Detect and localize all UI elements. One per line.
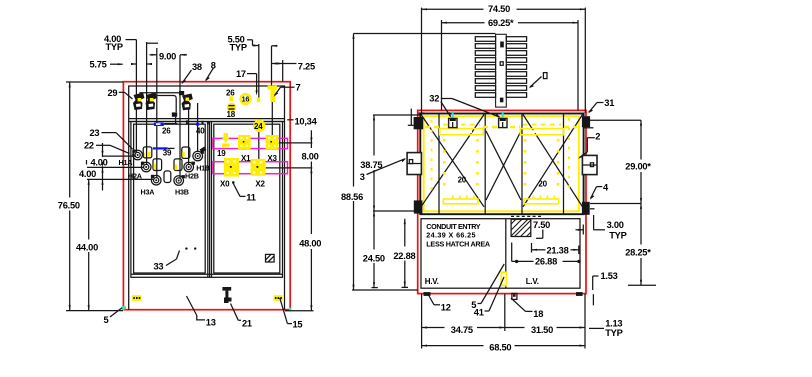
svg-text:7.50: 7.50 [533, 220, 550, 230]
svg-text:4.00: 4.00 [79, 169, 96, 179]
dim 5.75 [90, 60, 124, 70]
insulator C5 [182, 147, 190, 158]
svg-text:18: 18 [227, 110, 236, 119]
svg-text:TYP: TYP [230, 43, 247, 53]
foot pad left [424, 292, 431, 296]
ext line H3 [87, 178, 154, 180]
arrow 19 yellow [222, 133, 231, 147]
partition 1 [438, 114, 440, 215]
svg-text:16: 16 [242, 95, 250, 104]
dim 76.50 [58, 82, 123, 311]
radiator center column [496, 34, 507, 107]
vent 17 yellow tick [257, 97, 260, 102]
H3A bushing [151, 175, 161, 185]
label HV [425, 277, 439, 286]
svg-text:39: 39 [163, 149, 172, 158]
svg-text:48.00: 48.00 [299, 239, 321, 249]
text conduit entry [426, 222, 490, 249]
insulator C2 [153, 159, 162, 171]
svg-text:9.00: 9.00 [159, 52, 176, 62]
svg-text:24.50: 24.50 [363, 253, 385, 263]
tank plan outline [420, 114, 583, 215]
svg-text:12: 12 [441, 302, 451, 312]
bushing B1 [133, 93, 145, 111]
svg-text:24: 24 [254, 122, 263, 131]
cabinet front outline [129, 86, 285, 310]
H1B bushing [193, 147, 207, 161]
callout 12 [429, 295, 451, 312]
grounding nut 18 [227, 103, 236, 112]
callout 21 [231, 304, 252, 329]
svg-text:21.38: 21.38 [547, 245, 569, 255]
svg-text:33: 33 [154, 261, 164, 271]
dim 26.88 [512, 243, 581, 267]
svg-text:H1A: H1A [119, 158, 133, 167]
svg-text:CONDUIT ENTRY: CONDUIT ENTRY [426, 222, 480, 231]
dim 9.00 [150, 52, 188, 62]
base pad left yellow [132, 295, 141, 301]
callout 8 [205, 60, 216, 81]
H2A bushing [141, 162, 151, 172]
dim 31.50 [505, 294, 585, 349]
X brace left bay [421, 115, 484, 207]
dim 5.50 TYP [228, 35, 278, 53]
callout 38 [181, 62, 202, 84]
H1A bushing [132, 150, 145, 160]
svg-text:4.00: 4.00 [91, 157, 108, 167]
corner tick left cyan [122, 306, 126, 310]
label 39 [163, 149, 172, 158]
partition 2 [484, 114, 486, 215]
svg-text:44.00: 44.00 [76, 242, 98, 252]
callout 31 [588, 98, 614, 114]
svg-text:H1B: H1B [196, 164, 210, 173]
bushing H3 drop wire [156, 48, 158, 178]
callout 5 left [104, 308, 123, 325]
svg-text:38.75: 38.75 [360, 160, 382, 170]
ext line H1 [102, 155, 136, 157]
label LV [526, 277, 539, 286]
svg-text:69.25*: 69.25* [488, 18, 514, 28]
label 40 blue [186, 123, 199, 126]
dim 22.88 [393, 219, 415, 288]
dim 8.00 [302, 151, 319, 161]
callout 15 [280, 298, 303, 329]
svg-text:26: 26 [226, 88, 235, 97]
dim 29.00 [590, 120, 651, 285]
core 1 [440, 129, 483, 204]
dim 4.00 TYP top [104, 34, 158, 65]
dim 28.25 [625, 204, 656, 286]
lead line X3 row [279, 142, 313, 144]
terminal 26 yellow square [229, 96, 233, 101]
svg-text:20: 20 [458, 176, 467, 185]
callout 13 [187, 296, 216, 327]
hatch box 25 [266, 254, 275, 262]
dim 34.75 [422, 294, 505, 349]
svg-text:H.V.: H.V. [425, 277, 439, 286]
callout 29 [108, 88, 133, 99]
label 26 shelf [162, 126, 171, 135]
callout 0 radiator [529, 73, 548, 89]
dim 1.13 TYP [589, 294, 623, 338]
svg-text:68.50: 68.50 [489, 342, 511, 352]
callout 22 [84, 140, 130, 153]
corner pad BR [582, 202, 595, 215]
svg-text:13: 13 [206, 317, 216, 327]
label 19 [217, 149, 226, 158]
callout 5 [471, 264, 504, 310]
magenta row 1 [213, 138, 288, 148]
label X1 [241, 154, 251, 163]
holddown bolt B [499, 111, 507, 128]
svg-text:31: 31 [604, 98, 614, 108]
dim 10,34 [287, 116, 317, 126]
wire 39 blue [153, 147, 175, 149]
dim 38.75 [360, 115, 420, 288]
svg-text:TYP: TYP [106, 42, 123, 52]
cabinet divider [505, 219, 507, 289]
corner tick right cyan [289, 308, 292, 312]
svg-text:7.25: 7.25 [298, 61, 315, 71]
svg-text:X3: X3 [267, 154, 277, 163]
svg-text:26: 26 [162, 126, 171, 135]
callout 7 [274, 83, 301, 97]
hidden hatch dashes yellow [425, 125, 577, 127]
callout 4 [590, 182, 609, 200]
svg-text:TYP: TYP [609, 230, 626, 240]
X brace right bay [523, 115, 583, 207]
holddown bolt A [449, 111, 457, 128]
svg-text:15: 15 [293, 319, 303, 329]
X brace middle bay [486, 131, 521, 200]
svg-text:5: 5 [104, 315, 109, 325]
svg-text:74.50: 74.50 [488, 4, 510, 14]
insulator C3 [164, 171, 171, 183]
callout 33 [154, 251, 180, 272]
jack boss 21 [222, 287, 231, 303]
label X0 [220, 179, 230, 188]
hidden hatch side dashes [432, 118, 570, 195]
dim 74.50 [422, 4, 586, 115]
svg-text:X1: X1 [241, 154, 251, 163]
label 20 right [538, 180, 547, 189]
wire connector box [172, 112, 177, 123]
label H1B [196, 164, 210, 173]
H1B drop wire [197, 103, 199, 152]
callout 18 plan [511, 298, 543, 319]
dim 69.25 [442, 18, 579, 111]
svg-text:22: 22 [84, 140, 94, 150]
shelf ticks [186, 120, 209, 124]
svg-text:31.50: 31.50 [531, 325, 553, 335]
dim 88.56 [341, 34, 418, 291]
tank front red outline [123, 82, 290, 310]
label X2 [255, 179, 265, 188]
H2B drop wire [188, 103, 190, 164]
bushing H1 drop wire [135, 40, 137, 152]
svg-text:H3B: H3B [175, 187, 189, 196]
side boss left [407, 153, 421, 175]
dim 7.25 [272, 61, 315, 71]
callout 32 [429, 94, 500, 118]
dim 3.00 TYP [576, 215, 627, 240]
ext line H2 [87, 166, 144, 168]
label H2B [185, 171, 199, 180]
corner pad TL [408, 109, 425, 130]
svg-text:34.75: 34.75 [451, 325, 473, 335]
label 20 left [458, 176, 467, 185]
H3B bushing [174, 175, 185, 185]
callout 17 [236, 69, 258, 96]
wire bus top [139, 93, 179, 113]
label H3A [141, 187, 155, 196]
svg-text:26.88: 26.88 [535, 256, 557, 266]
svg-text:17: 17 [236, 69, 246, 79]
insulator C1 [143, 147, 152, 158]
svg-text:22.88: 22.88 [393, 251, 415, 261]
svg-text:23: 23 [90, 128, 100, 138]
core 2 [520, 129, 563, 204]
corner pad TR [582, 116, 594, 128]
radiator fins left [475, 37, 495, 98]
label H2A [128, 171, 142, 180]
dim vline right [285, 130, 314, 310]
svg-text:38: 38 [192, 62, 202, 72]
left door [134, 124, 206, 273]
bushing B2 [146, 93, 158, 111]
valve 24 yellow circle [253, 44, 265, 163]
svg-text:29: 29 [108, 88, 118, 98]
right door [214, 124, 280, 273]
ext line 7.25 [272, 46, 283, 85]
label 18 top [227, 110, 236, 119]
label X3 [267, 154, 277, 163]
svg-text:20: 20 [538, 180, 547, 189]
svg-text:19: 19 [217, 149, 226, 158]
svg-text:29.00*: 29.00* [625, 162, 651, 172]
svg-text:7: 7 [296, 83, 301, 93]
dim 21.38 [532, 243, 579, 255]
ext 88.56 top [354, 33, 496, 35]
callout 2 [578, 131, 600, 158]
dim 48.00 [299, 239, 321, 249]
dim 44.00 [76, 179, 98, 310]
door divider [208, 122, 212, 278]
corner pad BL [414, 200, 423, 213]
svg-text:1.53: 1.53 [601, 271, 618, 281]
svg-text:11: 11 [246, 192, 255, 202]
label H1A [119, 158, 133, 167]
dim 1.53 [593, 271, 618, 290]
side boss right [582, 155, 597, 174]
svg-text:40: 40 [196, 126, 205, 135]
svg-text:X0: X0 [220, 179, 230, 188]
bolt 7 yellow [268, 86, 278, 137]
H2B bushing [184, 162, 195, 172]
nameplate 26 blue [154, 123, 178, 126]
callout 41 [474, 277, 504, 317]
svg-text:2: 2 [595, 131, 600, 141]
lead line X2 row [266, 167, 313, 169]
partition 4 [563, 114, 565, 215]
svg-text:3.00: 3.00 [607, 220, 624, 230]
cabinet plan outline [421, 219, 580, 289]
callout 23 [90, 128, 133, 149]
svg-text:88.56: 88.56 [341, 192, 363, 202]
door frame [131, 122, 283, 278]
bushing B3 [179, 91, 193, 110]
LEFTVIEW [58, 34, 321, 329]
svg-text:3: 3 [360, 172, 365, 182]
hatch square [511, 219, 531, 236]
dim 68.50 [422, 342, 585, 352]
vent dots [185, 247, 196, 249]
tank inner yellow outline [424, 116, 579, 211]
partition 3 [521, 114, 523, 215]
svg-text:28.25*: 28.25* [625, 247, 651, 257]
magenta row 2 [213, 162, 288, 174]
svg-text:24.39 X 66.25: 24.39 X 66.25 [426, 231, 475, 240]
svg-text:32: 32 [429, 94, 439, 104]
svg-text:H2A: H2A [128, 171, 142, 180]
dim 4.00 H1-H2 [87, 143, 108, 191]
dim 24.50 [363, 211, 385, 288]
svg-text:41: 41 [474, 307, 484, 317]
gauge 16 yellow ring [241, 94, 250, 103]
clip 18 [512, 293, 517, 299]
label H3B [175, 187, 189, 196]
cover shelf line [129, 119, 285, 122]
svg-text:L.V.: L.V. [526, 277, 539, 286]
foot pad right [576, 292, 583, 296]
terminal X3 [266, 135, 279, 149]
dim 7.50 [533, 220, 550, 238]
dim 4.00 H2-H3 [79, 162, 104, 185]
callout 11 [232, 181, 256, 202]
radiator fins right [506, 37, 526, 98]
svg-text:8.00: 8.00 [302, 151, 319, 161]
svg-text:18: 18 [533, 309, 543, 319]
svg-text:76.50: 76.50 [58, 200, 80, 210]
base pad right yellow [274, 295, 283, 301]
svg-text:TYP: TYP [605, 328, 622, 338]
plan red outline [418, 110, 586, 293]
insulator C4 [174, 159, 182, 171]
hatch hidden dashes [511, 215, 543, 217]
conduit window 5 [501, 272, 506, 285]
svg-text:5.75: 5.75 [90, 60, 107, 70]
callout 3 [360, 158, 407, 182]
svg-text:LESS HATCH AREA: LESS HATCH AREA [426, 239, 490, 248]
bushing B3 drop wire [179, 55, 181, 178]
label 26 top [226, 88, 235, 97]
svg-text:10,34: 10,34 [295, 116, 318, 126]
terminal X1 [238, 135, 251, 149]
svg-text:21: 21 [242, 318, 252, 328]
terminal X0 [224, 158, 239, 177]
svg-text:H2B: H2B [185, 171, 199, 180]
svg-text:X2: X2 [255, 179, 265, 188]
terminal X2 [251, 159, 266, 176]
RIGHTVIEW [341, 4, 656, 352]
bushing H2 drop wire [146, 42, 148, 164]
svg-text:H3A: H3A [141, 187, 155, 196]
label 40 shelf [196, 126, 205, 135]
